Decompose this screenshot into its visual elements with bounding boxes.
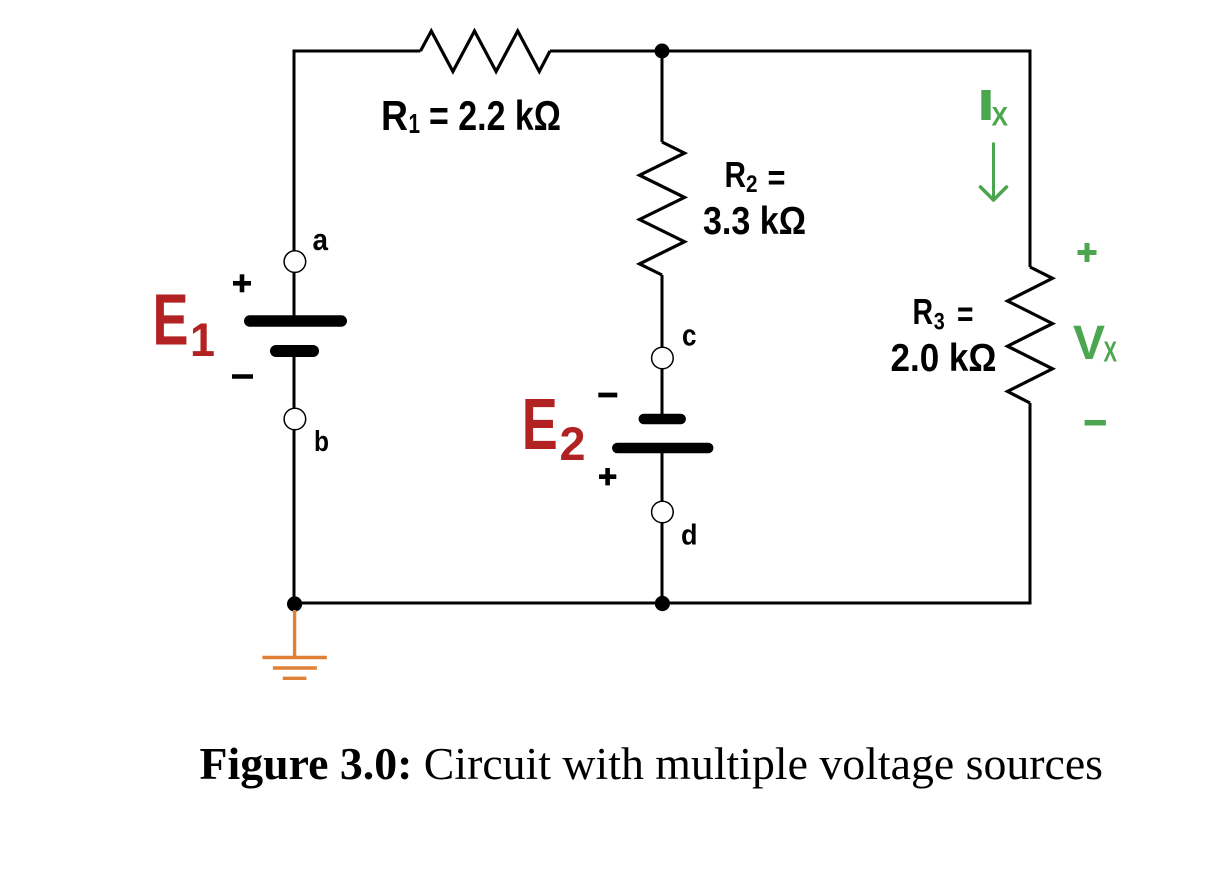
label R1 value [381, 92, 561, 139]
junction dot: bottom middle [655, 596, 670, 611]
svg-text:c: c [682, 318, 697, 352]
svg-text:X: X [992, 102, 1009, 132]
junction dot: ground node bottom-left [287, 596, 302, 611]
wire: E2 top lead [661, 369, 664, 419]
wire: E1 top lead [293, 272, 296, 318]
node b [284, 408, 306, 430]
label Ix [977, 82, 1008, 132]
svg-text:3.3 kΩ: 3.3 kΩ [703, 200, 806, 243]
wire: bottom horizontal [294, 602, 1030, 605]
wire: E2 bottom lead [661, 448, 664, 501]
label E1 [153, 280, 216, 367]
svg-text:E: E [522, 384, 558, 465]
resistor R1 [421, 31, 551, 72]
label E2 minus [598, 393, 617, 398]
label E2 [522, 384, 586, 470]
wire: middle vertical upper [661, 51, 664, 142]
battery E2 plate short [644, 414, 681, 425]
label Vx minus [1085, 420, 1106, 426]
battery E2 plate long [617, 443, 708, 454]
svg-text:b: b [314, 426, 329, 458]
svg-text:E: E [153, 280, 189, 361]
wire: E1 bottom lead [293, 351, 296, 408]
node: top junction dot [655, 44, 670, 59]
resistor R2 [640, 142, 685, 275]
wire: top horizontal left segment [294, 51, 421, 252]
battery E1 plate short [276, 345, 313, 357]
svg-text:=: = [768, 156, 786, 197]
label R2 value [703, 154, 806, 243]
wire: R2 to node c [661, 275, 664, 348]
label Vx plus [1078, 243, 1097, 262]
svg-text:2.0 kΩ: 2.0 kΩ [891, 337, 997, 380]
node c [652, 347, 674, 369]
battery E1 plate long [250, 315, 342, 326]
resistor R3 [1008, 267, 1053, 403]
svg-text:2: 2 [560, 417, 586, 470]
svg-text:X: X [1104, 336, 1118, 368]
svg-text:Figure 3.0: Circuit with multi: Figure 3.0: Circuit with multiple voltag… [200, 738, 1104, 789]
node d [652, 501, 674, 523]
label E1 plus [233, 274, 251, 292]
svg-text:1: 1 [190, 313, 215, 366]
svg-text:1: 1 [409, 108, 421, 139]
svg-text:2: 2 [746, 171, 758, 198]
wire: right vertical lower [1029, 403, 1032, 605]
svg-text:3: 3 [934, 309, 945, 336]
svg-text:R: R [725, 154, 747, 195]
svg-text:= 2.2 kΩ: = 2.2 kΩ [429, 92, 561, 139]
label Vx [1073, 317, 1117, 370]
label E2 plus [599, 468, 616, 485]
svg-text:V: V [1073, 317, 1105, 370]
wire: node d to bottom node [661, 523, 664, 603]
svg-text:d: d [681, 519, 698, 551]
current arrow Ix [981, 143, 1007, 201]
ground [262, 610, 326, 678]
svg-text:a: a [313, 223, 329, 257]
svg-text:R: R [381, 92, 408, 139]
wire: top horizontal right segment [550, 51, 1030, 267]
label E1 minus [232, 374, 253, 379]
label R3 value [891, 291, 997, 380]
svg-text:R: R [913, 291, 934, 332]
wire: left vertical lower [293, 430, 296, 603]
node a [284, 251, 306, 273]
svg-text:=: = [957, 293, 974, 334]
